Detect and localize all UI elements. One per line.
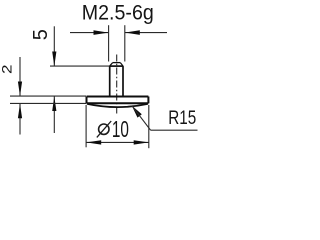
centerline of stud [116, 55, 118, 115]
disc top edge [87, 96, 149, 98]
dim dia10 right arrowhead [134, 140, 149, 144]
extension line at stud top for dim 5 [50, 65, 109, 67]
dim 5 upper arrowhead (down) [52, 52, 56, 67]
R15 leader shelf [151, 129, 198, 131]
stud chamfer left diagonal [110, 63, 113, 66]
R15 leader diagonal [132, 106, 151, 131]
extension line at disc bottom [10, 102, 86, 104]
svg-text:R15: R15 [168, 107, 196, 129]
svg-text:10: 10 [112, 116, 129, 142]
stud chamfer right diagonal [120, 63, 122, 66]
extension line right of thread dim [124, 25, 126, 61]
svg-text:2: 2 [0, 64, 16, 74]
dimension M2.5 dim line right tail [125, 32, 167, 34]
stud thread end edge [109, 65, 123, 67]
dim 2 lower arrowhead (up) [18, 104, 22, 119]
dim 5 upper shaft [53, 26, 55, 65]
disc right side [147, 97, 149, 104]
dimension M2.5 dim line left tail [70, 32, 108, 34]
extension line below disc right [148, 105, 150, 148]
stud right side [122, 66, 124, 96]
dim dia10 left arrowhead [86, 140, 101, 144]
extension line left of thread dim [108, 25, 110, 61]
dim 5 lower arrowhead (up) [52, 96, 56, 111]
R15 leader arrowhead [132, 106, 142, 118]
disc left side [86, 97, 88, 104]
extension line at disc top [10, 95, 86, 97]
stud flat top [113, 62, 121, 64]
svg-text:M2.5-6g: M2.5-6g [82, 1, 154, 25]
extension line below disc left [85, 105, 87, 147]
dia10 label diameter symbol [99, 124, 109, 134]
svg-text:5: 5 [30, 29, 52, 40]
stud left side [109, 66, 111, 96]
disc bottom rim edge [87, 102, 149, 104]
dim 5 lower shaft [53, 96, 55, 133]
dimension M2.5 right arrowhead [125, 30, 140, 35]
dim 2 upper shaft [19, 57, 21, 96]
disc curved measuring face R15 [87, 104, 148, 107]
dimension M2.5 left arrowhead [94, 30, 109, 35]
dim dia10 line [86, 141, 149, 143]
dim 2 lower shaft [19, 104, 21, 135]
dim 2 upper arrowhead (down) [18, 82, 22, 97]
